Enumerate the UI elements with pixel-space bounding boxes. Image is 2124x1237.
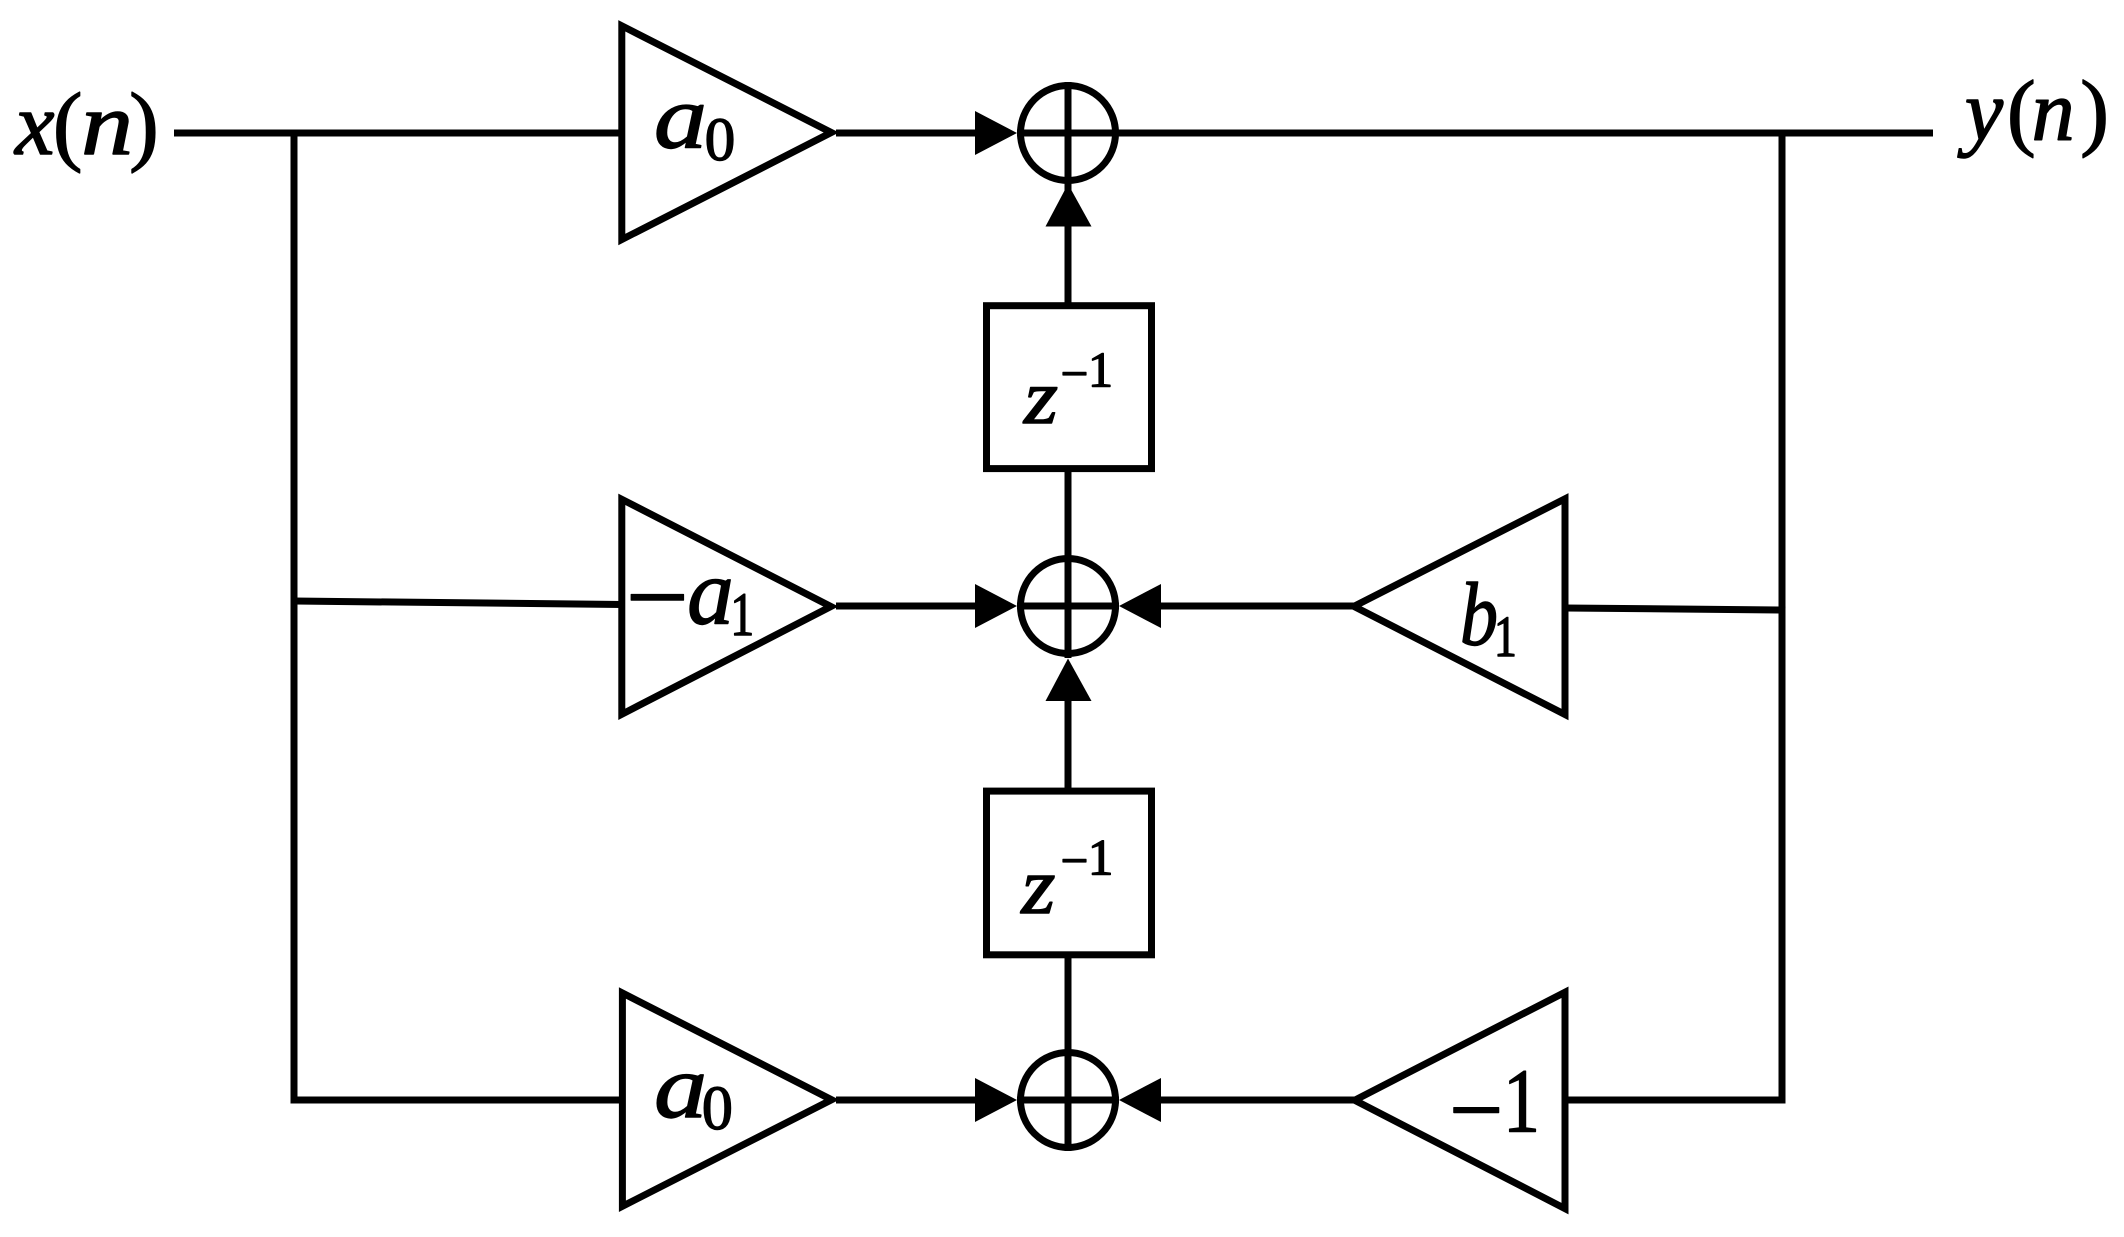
wire plus bar adder S3	[1017, 1097, 1119, 1104]
gain triangle a0 bottom	[622, 993, 831, 1206]
svg-text:a: a	[654, 68, 707, 167]
arrowhead into adder S2 bottom	[1046, 659, 1092, 702]
wire delay z2 up into adder S2	[1065, 701, 1072, 791]
wire adder S1 to output y(n)	[1017, 130, 1933, 137]
arrowhead into adder S3 right	[1119, 1078, 1161, 1122]
svg-text:0: 0	[705, 107, 736, 174]
svg-text:0: 0	[702, 1075, 733, 1143]
wire left trunk to gain -a1	[294, 601, 622, 605]
svg-text:y: y	[1957, 62, 2004, 158]
svg-text:1: 1	[1088, 341, 1113, 397]
svg-text:z: z	[1023, 354, 1058, 440]
gain triangle -a1	[622, 499, 831, 714]
wire input x(n) to gain a0	[174, 130, 622, 137]
arrowhead into adder S2 left	[975, 584, 1017, 628]
wire left trunk vertical	[291, 133, 298, 1104]
arrowhead into adder S1 bottom	[1046, 184, 1092, 227]
svg-text:−: −	[626, 535, 689, 659]
wire gain -a1 output to adder S2	[836, 603, 976, 610]
svg-text:1: 1	[730, 582, 754, 649]
svg-text:b: b	[1460, 566, 1498, 665]
wire adder S3 up into delay z2	[1065, 955, 1072, 1151]
adder S2 circle	[1021, 559, 1116, 654]
svg-text:): )	[129, 76, 159, 174]
delay block z1 rect	[987, 306, 1152, 469]
wire gain a0 output to adder S1	[836, 130, 976, 137]
gain triangle a0 top	[622, 26, 832, 240]
gain triangle b1	[1354, 499, 1565, 715]
svg-text:x: x	[13, 76, 55, 174]
wire right trunk to gain b1	[1565, 608, 1786, 610]
wire adder S2 up into delay z1	[1065, 469, 1072, 658]
wire left trunk to gain a0 bottom	[291, 1097, 623, 1104]
svg-text:n: n	[81, 76, 133, 174]
svg-text:1: 1	[1503, 1050, 1540, 1152]
gain triangle -1	[1355, 992, 1565, 1208]
wire gain -1 output to adder S3	[1161, 1097, 1355, 1104]
svg-text:1: 1	[1088, 830, 1114, 886]
adder S1 circle	[1021, 86, 1116, 181]
svg-text:1: 1	[1494, 604, 1517, 669]
adder S3 circle	[1021, 1053, 1116, 1148]
svg-text:z: z	[1020, 841, 1055, 931]
wire gain a0 bottom output to adder S3	[836, 1097, 976, 1104]
svg-text:n: n	[2032, 62, 2075, 158]
svg-text:−: −	[1449, 1056, 1503, 1163]
svg-text:−: −	[1061, 346, 1089, 401]
svg-text:a: a	[654, 1038, 707, 1137]
delay block z2 rect	[987, 791, 1152, 955]
svg-text:(: (	[53, 76, 83, 174]
wire delay z1 up into adder S1	[1065, 82, 1072, 305]
arrowhead into adder S1 left	[975, 111, 1017, 155]
arrowhead into adder S3 left	[975, 1078, 1017, 1122]
wire right trunk vertical	[1779, 133, 1786, 1104]
svg-text:−: −	[1061, 833, 1089, 888]
svg-text:a: a	[687, 542, 734, 645]
arrowhead into adder S2 right	[1119, 584, 1161, 628]
wire gain b1 output to adder S2	[1161, 603, 1354, 610]
svg-text:): )	[2080, 62, 2109, 158]
wire right trunk to gain -1	[1565, 1097, 1786, 1104]
wire plus bar adder S2	[1017, 603, 1119, 610]
